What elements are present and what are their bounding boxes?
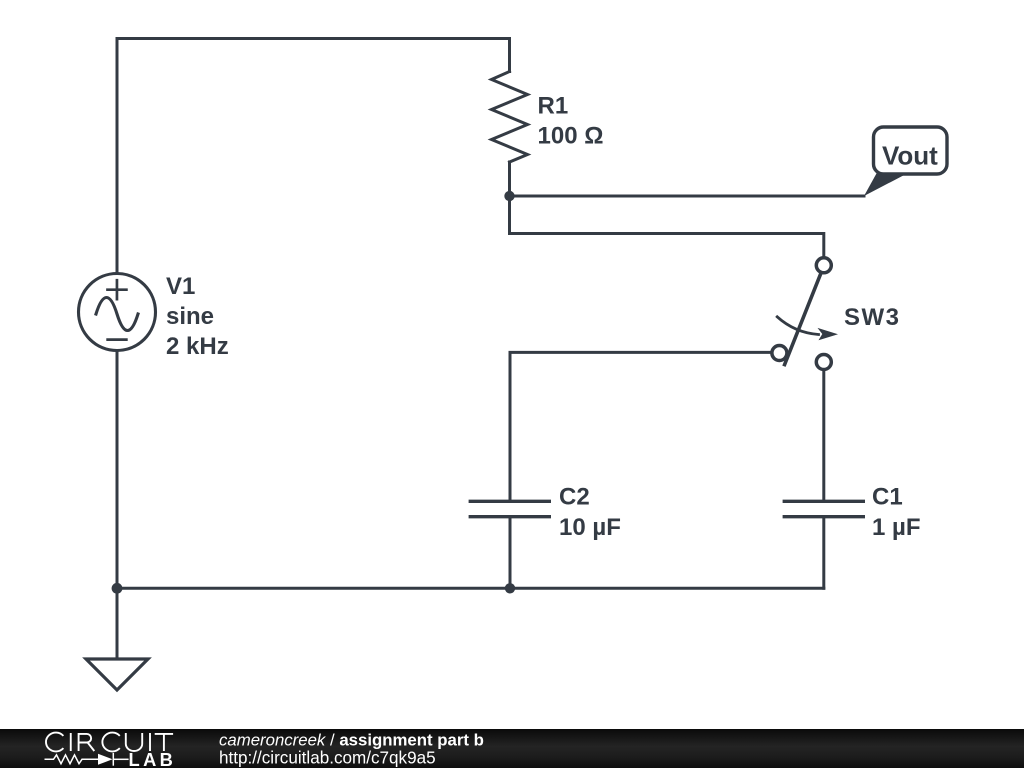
svg-text:sine: sine <box>166 303 214 330</box>
resistor R1 <box>492 72 528 163</box>
footer bar <box>0 729 1024 768</box>
wire node A to Vout flag <box>510 195 865 198</box>
svg-text:V1: V1 <box>166 273 195 300</box>
svg-text:LAB: LAB <box>129 749 177 768</box>
wire ground stem <box>116 588 119 659</box>
junction dot bottom left <box>112 583 123 594</box>
svg-text:C1: C1 <box>872 484 903 511</box>
svg-text:R1: R1 <box>538 93 569 120</box>
wire C2 top lead and across to switch throw terminal <box>510 352 771 501</box>
junction dot C2 bottom <box>505 583 515 593</box>
capacitor C1 <box>783 501 865 516</box>
footer logo CIRCUIT <box>46 733 173 752</box>
voltage source V1 <box>79 274 156 351</box>
wire C1 bottom lead <box>822 517 825 588</box>
wire V1 bottom lead <box>116 351 119 589</box>
svg-text:100 Ω: 100 Ω <box>538 123 604 150</box>
wire C2 bottom lead <box>509 517 512 588</box>
svg-text:10 µF: 10 µF <box>559 514 621 541</box>
svg-text:2 kHz: 2 kHz <box>166 333 229 360</box>
wire top rail from V1 top to R1 top <box>117 39 510 273</box>
wire bottom rail <box>117 587 824 590</box>
svg-text:SW3: SW3 <box>844 304 901 331</box>
svg-text:Vout: Vout <box>882 141 938 171</box>
node A junction dot <box>504 191 514 201</box>
svg-text:C2: C2 <box>559 484 590 511</box>
ground <box>86 659 148 690</box>
wire C1 top lead from switch bottom terminal <box>822 370 825 501</box>
wire R1 bottom lead to node A <box>508 162 511 196</box>
svg-text:http://circuitlab.com/c7qk9a5: http://circuitlab.com/c7qk9a5 <box>219 749 436 768</box>
footer logo squiggle <box>45 753 129 766</box>
switch SW3 <box>772 258 838 370</box>
svg-text:cameroncreek / assignment part: cameroncreek / assignment part b <box>219 731 484 750</box>
svg-text:1 µF: 1 µF <box>872 514 921 541</box>
capacitor C2 <box>469 501 551 516</box>
wire node A down and right to switch top terminal <box>510 196 824 257</box>
net flag Vout <box>864 127 947 196</box>
